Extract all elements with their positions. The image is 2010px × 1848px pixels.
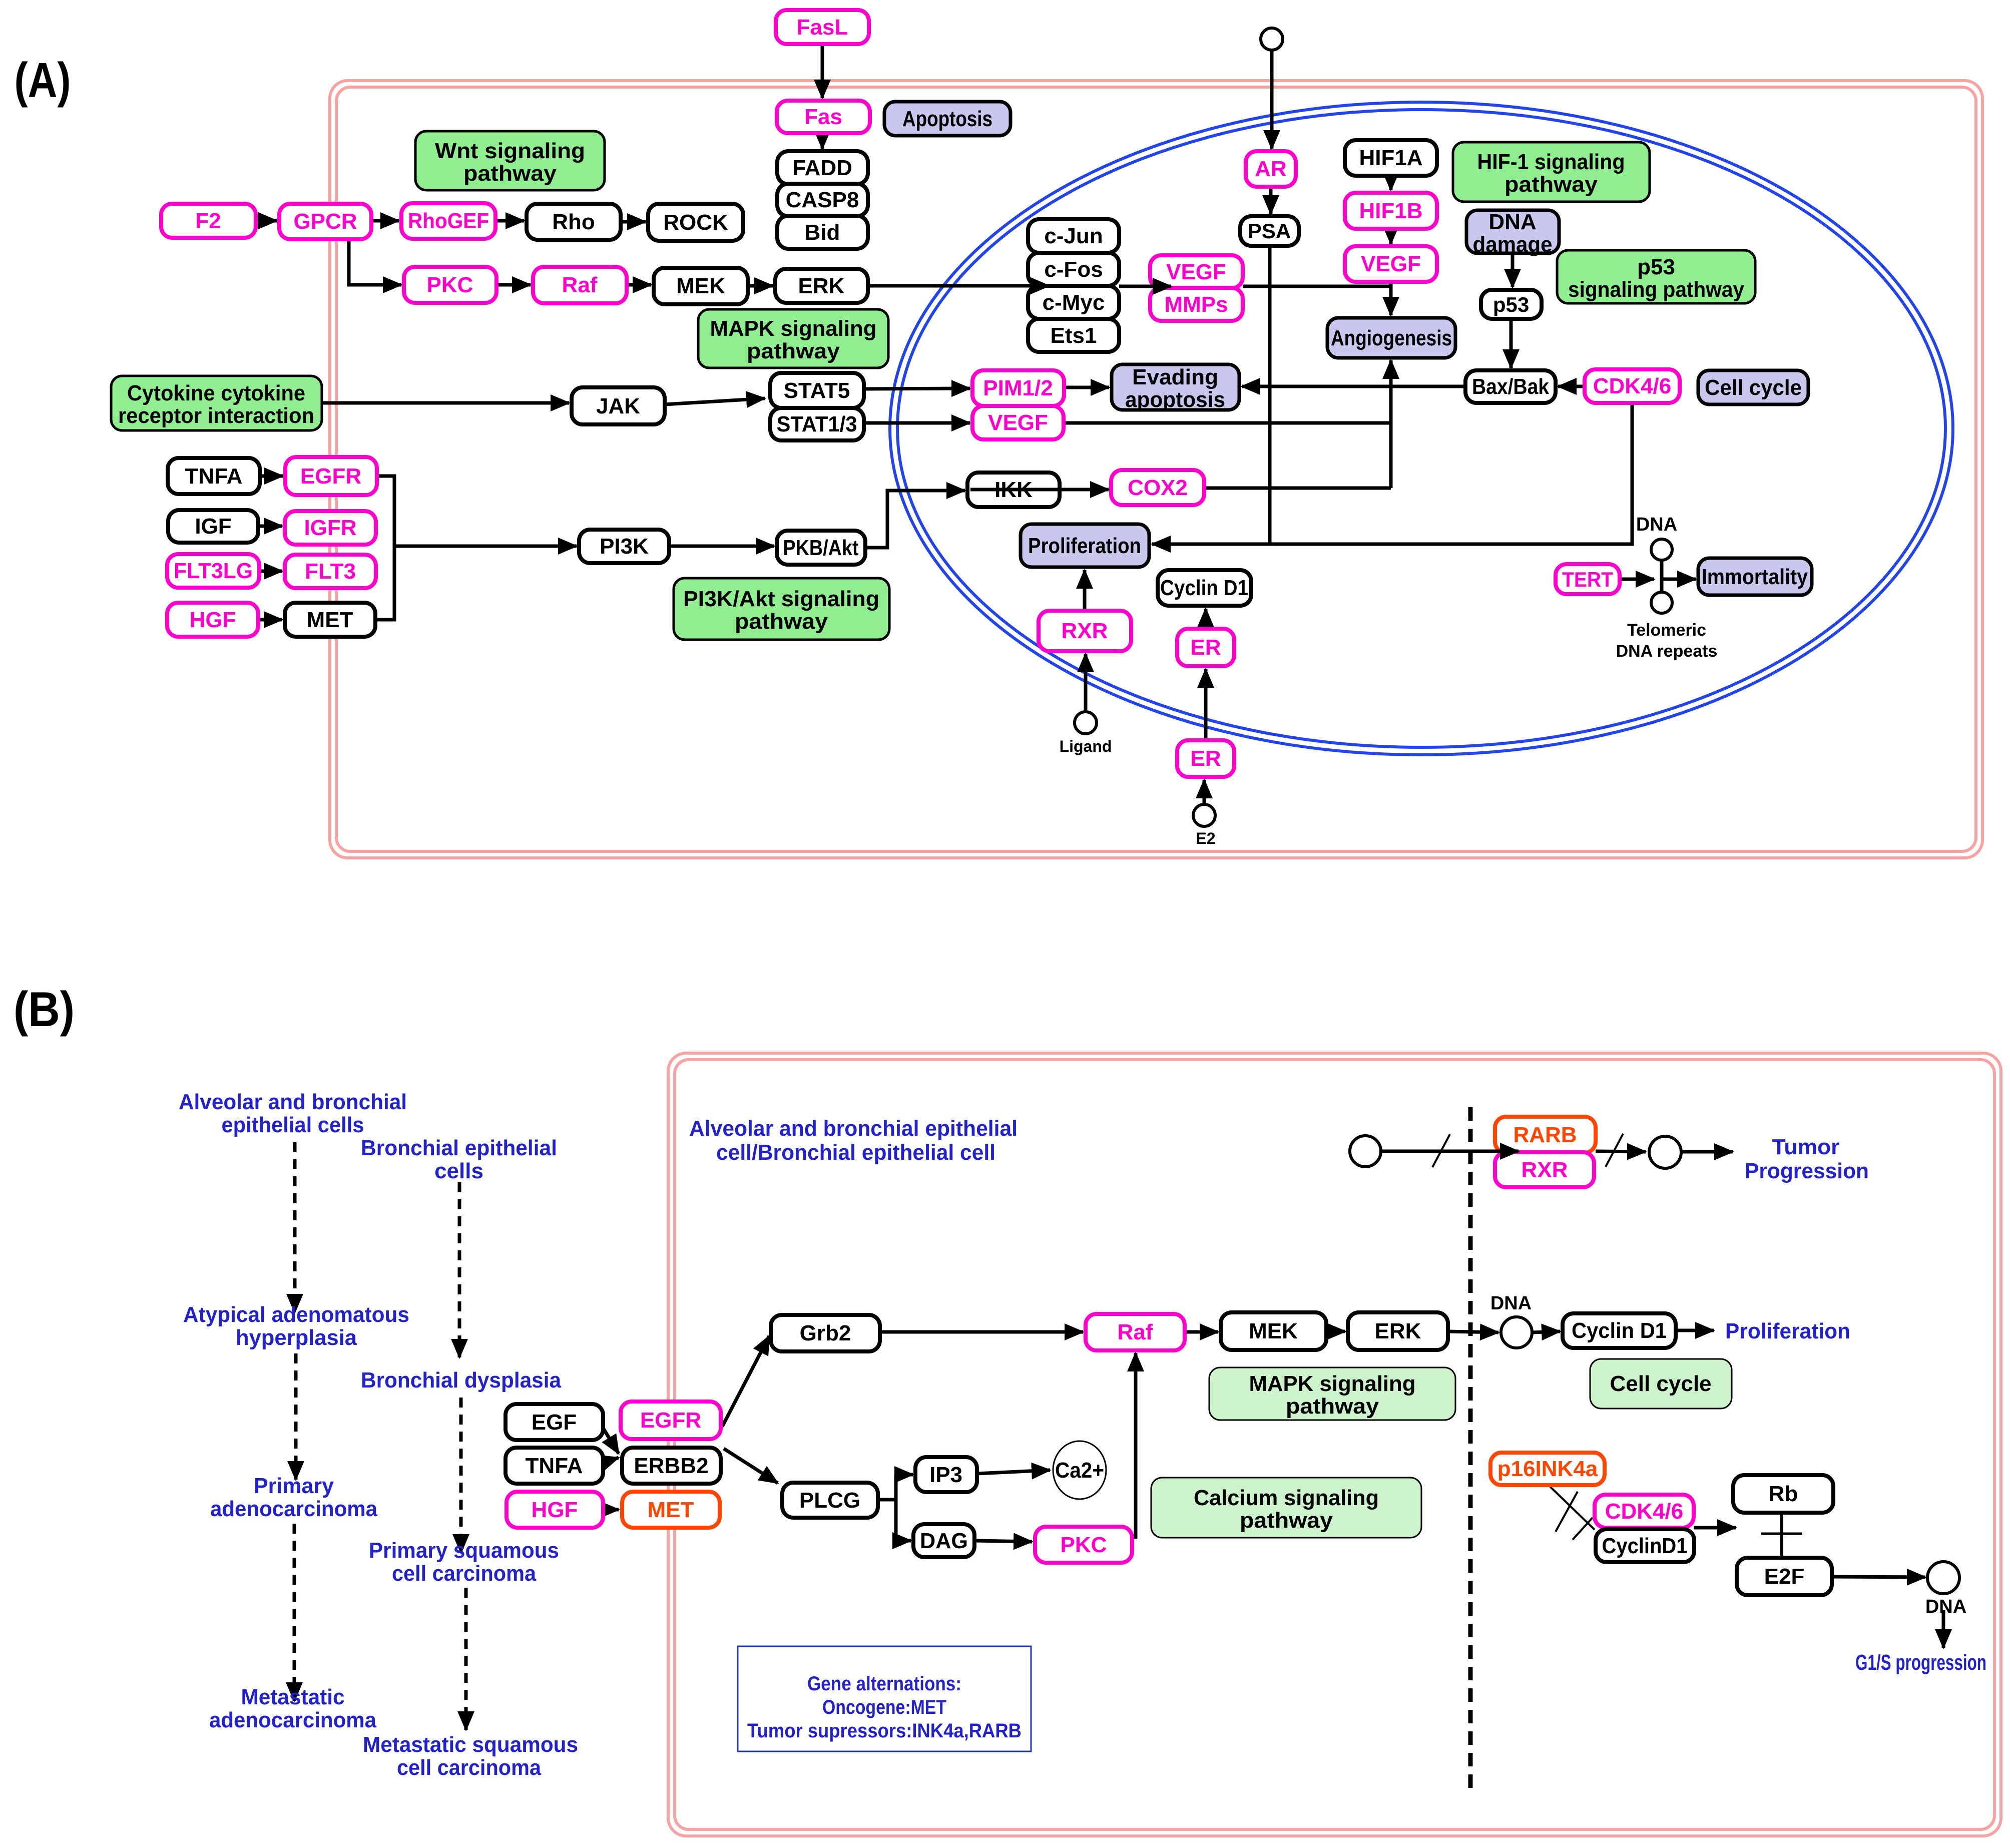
E2 circle: [1193, 804, 1215, 826]
arrow fork->DAG: [896, 1539, 911, 1543]
svg-text:Wnt signaling: Wnt signaling: [435, 139, 585, 163]
panel A membrane border (outer pink line): [330, 81, 1982, 858]
svg-text:COX2: COX2: [1128, 476, 1188, 500]
node IP3: [915, 1457, 977, 1492]
svg-text:PKC: PKC: [427, 273, 473, 297]
svg-text:hyperplasia: hyperplasia: [236, 1325, 357, 1350]
node PLCG: [782, 1483, 878, 1518]
panel B membrane border (outer pink line): [668, 1053, 2001, 1836]
wire receptor bracket: [375, 476, 394, 620]
svg-text:Bid: Bid: [805, 220, 840, 245]
arrow PKC->Raf: [496, 283, 531, 287]
svg-text:Rho: Rho: [552, 210, 595, 234]
svg-text:Fas: Fas: [804, 105, 842, 129]
node p53: [1481, 290, 1542, 319]
node COX2: [1111, 470, 1204, 505]
svg-text:DNA: DNA: [1490, 1293, 1532, 1314]
node MEK: [654, 268, 748, 304]
node HIF1B: [1345, 193, 1437, 229]
arrow ligand circle->AR: [1270, 50, 1274, 149]
node IKK: [967, 473, 1060, 507]
svg-text:ER: ER: [1190, 746, 1221, 771]
arrow HGF->MET (B): [603, 1508, 619, 1512]
svg-text:c-Myc: c-Myc: [1043, 290, 1105, 315]
svg-text:DNA: DNA: [1636, 514, 1677, 535]
node Angiogenesis: [1327, 318, 1455, 358]
svg-text:Bronchial epithelial: Bronchial epithelial: [361, 1136, 557, 1160]
nucleus envelope (inner blue ellipse): [897, 110, 1945, 747]
svg-text:Bax/Bak: Bax/Bak: [1472, 374, 1549, 399]
arrow E2->ER: [1203, 780, 1206, 804]
svg-text:ROCK: ROCK: [663, 210, 728, 235]
dashed arrow hyperplasia->primary adenocarcinoma: [294, 1353, 298, 1480]
dashed arrow alveolar cells->atypical hyperplasia: [293, 1142, 297, 1312]
node CDK4/6: [1585, 369, 1680, 403]
arrow MEK->ERK (B): [1326, 1330, 1345, 1333]
node Immortality: [1698, 558, 1812, 595]
node PIM1/2: [972, 370, 1064, 406]
arrow STAT1/3->VEGF: [864, 421, 970, 425]
svg-text:Ca2+: Ca2+: [1055, 1458, 1104, 1483]
svg-text:Oncogene:MET: Oncogene:MET: [822, 1696, 946, 1718]
node Cell cycle (A): [1698, 370, 1808, 404]
arrow MEK->ERK: [748, 284, 773, 288]
arrow PKB/Akt->IKK (elbow): [865, 491, 965, 548]
svg-text:HGF: HGF: [532, 1498, 578, 1522]
svg-text:Atypical adenomatous: Atypical adenomatous: [183, 1302, 409, 1327]
arrow ERBB2->PLCG: [724, 1449, 778, 1483]
arrow PIM1/2->Evading apoptosis: [1064, 386, 1109, 389]
svg-text:VEGF: VEGF: [1166, 260, 1226, 284]
node MET (B): [622, 1492, 720, 1528]
svg-text:Rb: Rb: [1769, 1482, 1798, 1506]
circle after RXR: [1649, 1136, 1681, 1168]
DNA circle (E2F): [1927, 1562, 1959, 1594]
node MMPs: [1150, 288, 1243, 321]
label Wnt signaling pathway: [415, 131, 605, 190]
svg-text:JAK: JAK: [596, 394, 640, 418]
node DAG: [913, 1524, 974, 1557]
nucleus envelope (outer blue ellipse): [890, 102, 1953, 755]
node c-Myc: [1028, 286, 1119, 319]
arrow fork->IP3: [896, 1473, 913, 1477]
svg-text:PKC: PKC: [1061, 1533, 1107, 1557]
node Apoptosis: [884, 102, 1011, 136]
svg-text:Tumor: Tumor: [1772, 1135, 1840, 1159]
arrow E2F->DNA circle (B): [1832, 1577, 1925, 1577]
node JAK: [572, 387, 665, 424]
svg-text:cell/Bronchial epithelial cell: cell/Bronchial epithelial cell: [716, 1140, 995, 1165]
svg-text:Cyclin D1: Cyclin D1: [1160, 576, 1248, 600]
svg-text:G1/S progression: G1/S progression: [1855, 1650, 1986, 1675]
svg-text:PSA: PSA: [1248, 219, 1291, 243]
svg-text:Tumor supressors:INK4a,RARB: Tumor supressors:INK4a,RARB: [747, 1720, 1022, 1742]
label Calcium signaling pathway: [1151, 1478, 1421, 1538]
node Raf (B): [1086, 1314, 1185, 1350]
node IGFR: [285, 511, 376, 545]
node MEK (B): [1221, 1312, 1326, 1350]
wire PLCG fork stem: [878, 1498, 896, 1502]
dashed nucleus boundary line (panel B): [1468, 1107, 1473, 1792]
node VEGF (ERK target): [1150, 255, 1243, 288]
svg-text:p53: p53: [1637, 255, 1675, 279]
svg-text:TNFA: TNFA: [526, 1454, 583, 1478]
arrow EGF->ERBB2: [603, 1428, 619, 1454]
node Cyclin D1 (B): [1563, 1313, 1676, 1348]
svg-text:epithelial cells: epithelial cells: [222, 1113, 364, 1137]
arrow CDK4/6-CyclinD1->Rb/E2F: [1694, 1526, 1736, 1530]
svg-text:F2: F2: [195, 209, 221, 233]
node TNFA: [168, 458, 260, 494]
dashed arrow squamous->metastatic squamous: [464, 1588, 468, 1730]
telomeric DNA circle (top): [1651, 539, 1672, 560]
svg-text:Ligand: Ligand: [1060, 737, 1112, 755]
arrow Raf->MEK: [627, 283, 651, 287]
arrow stack->VEGF/MMPs: [1119, 285, 1171, 288]
cross-out slash 2 (p16INK4a): [1573, 1518, 1593, 1540]
svg-text:CDK4/6: CDK4/6: [1593, 374, 1672, 398]
telomeric DNA circle (bottom): [1651, 592, 1672, 613]
svg-text:DAG: DAG: [920, 1529, 968, 1553]
svg-text:MEK: MEK: [1249, 1319, 1298, 1343]
svg-text:FADD: FADD: [792, 156, 852, 180]
svg-text:DNA: DNA: [1925, 1596, 1966, 1617]
panel B membrane border (inner pink line): [675, 1060, 1994, 1829]
label MAPK signaling pathway (B): [1209, 1367, 1455, 1420]
DNA circle (ERK->CyclinD1): [1501, 1317, 1532, 1348]
arrow Ligand->RXR: [1084, 654, 1088, 711]
gene alternations box: [738, 1646, 1031, 1751]
svg-text:Primary squamous: Primary squamous: [369, 1538, 559, 1563]
svg-text:adenocarcinoma: adenocarcinoma: [210, 1497, 377, 1521]
svg-text:(A): (A): [15, 53, 71, 108]
arrow IGF->IGFR: [258, 525, 282, 528]
svg-text:MMPs: MMPs: [1164, 292, 1228, 317]
node EGFR (B): [621, 1402, 721, 1439]
arrow AR->PSA: [1269, 187, 1273, 214]
node Cyclin D1 (A): [1158, 570, 1251, 606]
node RXR (A): [1039, 611, 1131, 651]
arrow CDK4/6->Proliferation (elbow): [1152, 403, 1632, 544]
wire COX2->column: [1204, 487, 1391, 490]
svg-text:PIM1/2: PIM1/2: [983, 376, 1053, 400]
svg-text:pathway: pathway: [463, 161, 557, 186]
svg-text:PLCG: PLCG: [799, 1488, 860, 1513]
node EGF: [506, 1404, 603, 1440]
node Bid: [777, 216, 868, 249]
dashed arrow bronchial cells->dysplasia: [458, 1182, 461, 1357]
arrow GPCR->RhoGEF: [371, 219, 399, 223]
arrow HGF->MET: [258, 618, 282, 622]
node RhoGEF: [401, 203, 495, 239]
node ER (upper): [1177, 629, 1234, 666]
node FasL: [776, 10, 869, 44]
svg-text:PI3K: PI3K: [600, 534, 649, 559]
svg-text:STAT5: STAT5: [784, 378, 850, 403]
wire MMPs->angiogenesis column: [1243, 285, 1391, 288]
inhibition bar Rb->E2F: [1780, 1513, 1783, 1558]
node CyclinD1 (B): [1596, 1529, 1694, 1562]
svg-text:DNA repeats: DNA repeats: [1616, 642, 1718, 661]
svg-text:apoptosis: apoptosis: [1125, 387, 1225, 412]
node VEGF (HIF target): [1345, 246, 1437, 282]
circle before RARB: [1350, 1136, 1381, 1167]
svg-text:MEK: MEK: [676, 274, 725, 298]
svg-text:p53: p53: [1493, 293, 1529, 316]
svg-text:EGFR: EGFR: [640, 1408, 701, 1433]
arrow PI3K->PKB/Akt: [669, 545, 774, 548]
node TERT: [1556, 564, 1620, 594]
node HIF1A: [1345, 140, 1437, 176]
svg-text:Proliferation: Proliferation: [1028, 534, 1141, 558]
svg-text:Telomeric: Telomeric: [1627, 621, 1706, 640]
node CASP8: [777, 184, 868, 216]
svg-text:cells: cells: [434, 1159, 483, 1183]
svg-text:Raf: Raf: [1118, 1320, 1153, 1344]
svg-text:pathway: pathway: [747, 339, 840, 363]
svg-text:VEGF: VEGF: [1361, 252, 1421, 276]
svg-text:Progression: Progression: [1745, 1159, 1869, 1183]
slash break 1 (RARB input): [1432, 1134, 1450, 1167]
svg-text:RXR: RXR: [1522, 1158, 1568, 1182]
arrow EGFR->Grb2: [722, 1336, 769, 1427]
arrow Cytokine->JAK: [322, 401, 569, 405]
node Grb2: [771, 1315, 880, 1351]
svg-text:Calcium signaling: Calcium signaling: [1194, 1486, 1379, 1510]
wire PSA down to proliferation line: [1268, 246, 1272, 544]
arrow ERK->DNA circle: [1448, 1331, 1498, 1332]
svg-text:MET: MET: [307, 608, 353, 632]
node ROCK: [648, 204, 743, 241]
node Ets1: [1028, 319, 1119, 352]
svg-text:RhoGEF: RhoGEF: [408, 209, 489, 233]
node Rho: [527, 204, 621, 240]
svg-text:Evading: Evading: [1132, 365, 1218, 389]
svg-text:E2F: E2F: [1764, 1564, 1805, 1589]
node PKC (B): [1035, 1527, 1132, 1563]
node VEGF (STAT target): [972, 406, 1064, 439]
node ERBB2: [622, 1448, 721, 1484]
svg-text:VEGF: VEGF: [988, 410, 1048, 435]
node Rb: [1733, 1475, 1833, 1513]
svg-text:Bronchial dysplasia: Bronchial dysplasia: [361, 1368, 562, 1393]
arrow ERK->transcription factor stack: [868, 284, 1049, 288]
node TNFA (B): [506, 1448, 603, 1484]
dashed arrow dysplasia->primary squamous: [459, 1398, 463, 1553]
panel A membrane border (inner pink line): [336, 87, 1976, 851]
arrow DNA circle->Cyclin D1: [1532, 1331, 1560, 1332]
arrow JAK->STATs: [665, 398, 765, 404]
arrow F2->GPCR: [256, 219, 277, 223]
label Cell cycle (B): [1590, 1359, 1732, 1409]
arrow ER->ER: [1204, 669, 1208, 740]
svg-text:adenocarcinoma: adenocarcinoma: [209, 1708, 376, 1732]
arrow STAT5->PIM1/2: [864, 388, 970, 389]
svg-text:pathway: pathway: [735, 609, 828, 634]
arrow Rho->ROCK: [621, 220, 646, 224]
svg-text:c-Fos: c-Fos: [1044, 257, 1103, 282]
arrow DAG->PKC (B): [974, 1541, 1032, 1542]
label PI3K/Akt signaling pathway: [674, 578, 889, 640]
node EGFR: [285, 457, 377, 495]
svg-text:cell carcinoma: cell carcinoma: [392, 1561, 536, 1586]
svg-text:Cell cycle: Cell cycle: [1705, 375, 1802, 400]
wire VEGF->angiogenesis column: [1064, 421, 1391, 425]
arrow FasL->Fas: [821, 44, 824, 98]
node Evading apoptosis: [1112, 364, 1239, 412]
arrow HIF1B->VEGF: [1389, 229, 1393, 244]
wire PLCG fork vertical: [894, 1475, 898, 1541]
node E2F: [1737, 1558, 1832, 1595]
arrow RARB/RXR->circle: [1596, 1151, 1646, 1152]
node IGF: [168, 510, 258, 543]
svg-text:cell carcinoma: cell carcinoma: [397, 1755, 541, 1780]
node ERK: [775, 269, 868, 303]
svg-text:RARB: RARB: [1513, 1123, 1577, 1147]
arrow IP3->Ca2+: [977, 1470, 1050, 1474]
node c-Jun: [1028, 219, 1119, 253]
arrow TERT->telomere: [1620, 578, 1654, 581]
node Ca2+: [1053, 1441, 1106, 1499]
svg-text:pathway: pathway: [1286, 1394, 1379, 1419]
svg-text:HIF1A: HIF1A: [1359, 146, 1422, 170]
svg-text:HIF1B: HIF1B: [1359, 199, 1422, 223]
svg-text:FLT3: FLT3: [305, 559, 356, 584]
arrow DNA->G1/S progression: [1942, 1610, 1945, 1648]
node DNA damage: [1466, 210, 1559, 257]
svg-text:c-Jun: c-Jun: [1044, 224, 1103, 248]
node RXR (B): [1495, 1152, 1594, 1187]
node Bax/Bak: [1465, 370, 1556, 403]
node HGF: [167, 603, 258, 637]
arrow RhoGEF->Rho: [495, 219, 524, 223]
node ERK (B): [1348, 1312, 1448, 1350]
svg-text:Metastatic: Metastatic: [241, 1685, 345, 1709]
inhibition link p16INK4a->CDK4/6: [1550, 1487, 1595, 1530]
svg-text:signaling pathway: signaling pathway: [1568, 277, 1744, 302]
svg-text:PKB/Akt: PKB/Akt: [783, 536, 859, 560]
svg-text:Cyclin D1: Cyclin D1: [1572, 1318, 1667, 1343]
dashed arrow adenocarcinoma->metastatic adenocarcinoma: [293, 1524, 296, 1701]
svg-text:(B): (B): [14, 982, 75, 1037]
svg-text:Raf: Raf: [562, 273, 598, 297]
svg-text:PI3K/Akt signaling: PI3K/Akt signaling: [683, 587, 879, 611]
node p16INK4a: [1490, 1453, 1605, 1485]
svg-text:Apoptosis: Apoptosis: [902, 107, 992, 131]
arrow ER->Cyclin D1: [1204, 609, 1208, 629]
arrow telomere->Immortality: [1662, 578, 1696, 581]
svg-text:MET: MET: [648, 1498, 694, 1522]
svg-text:IP3: IP3: [929, 1463, 962, 1487]
svg-text:CASP8: CASP8: [786, 188, 859, 212]
arrow receptors->PI3K: [394, 545, 577, 548]
svg-text:TNFA: TNFA: [185, 464, 243, 489]
node c-Fos: [1028, 253, 1119, 286]
label p53 signaling pathway: [1557, 250, 1755, 303]
arrow PKC->Raf vertical (B): [1134, 1353, 1138, 1539]
svg-text:Cell cycle: Cell cycle: [1610, 1371, 1711, 1396]
arrow TNFA->EGFR: [260, 475, 283, 478]
svg-text:MAPK signaling: MAPK signaling: [710, 316, 877, 341]
node ER (lower): [1177, 740, 1234, 777]
node AR: [1246, 151, 1296, 187]
arrow Fas->FADD: [821, 133, 824, 149]
svg-text:CDK4/6: CDK4/6: [1605, 1499, 1684, 1524]
arrow TNFA->ERBB2: [603, 1458, 619, 1463]
node Proliferation: [1021, 524, 1149, 567]
svg-text:STAT1/3: STAT1/3: [777, 412, 857, 436]
node FLT3: [285, 555, 376, 588]
svg-text:MAPK signaling: MAPK signaling: [1249, 1371, 1416, 1396]
label Cytokine cytokine receptor interaction: [111, 376, 322, 430]
arrow VEGF->Angiogenesis: [1389, 282, 1393, 315]
arrow CDK4/6->Bax/Bak: [1558, 385, 1585, 388]
svg-text:TERT: TERT: [1562, 568, 1613, 591]
arrow COX2 column->Angiogenesis bottom: [1389, 360, 1393, 488]
ligand circle (RXR): [1075, 712, 1097, 734]
arrow FLT3LG->FLT3: [259, 570, 282, 573]
svg-text:CyclinD1: CyclinD1: [1602, 1534, 1688, 1558]
svg-text:HIF-1 signaling: HIF-1 signaling: [1477, 150, 1625, 174]
svg-text:Angiogenesis: Angiogenesis: [1331, 326, 1452, 350]
node HGF (B): [507, 1492, 603, 1528]
svg-text:Primary: Primary: [254, 1474, 334, 1498]
svg-text:AR: AR: [1255, 157, 1287, 181]
label MAPK signaling pathway: [698, 309, 888, 368]
svg-text:HGF: HGF: [190, 608, 236, 632]
svg-text:pathway: pathway: [1240, 1508, 1333, 1533]
node F2: [161, 204, 256, 238]
arrow Bax/Bak->Evading apoptosis: [1242, 385, 1465, 388]
arrow circle->Tumor Progression: [1682, 1150, 1733, 1154]
svg-text:pathway: pathway: [1504, 172, 1598, 197]
node PKC: [404, 267, 496, 303]
svg-text:ERK: ERK: [1375, 1319, 1421, 1343]
svg-text:Proliferation: Proliferation: [1725, 1319, 1850, 1343]
arrow circle->RARB/RXR: [1381, 1150, 1519, 1153]
node GPCR: [279, 204, 371, 239]
svg-text:ERK: ERK: [798, 274, 845, 298]
svg-text:Ets1: Ets1: [1051, 323, 1097, 348]
node RARB: [1495, 1117, 1596, 1153]
node PKB/Akt: [777, 531, 865, 565]
svg-text:Gene alternations:: Gene alternations:: [807, 1673, 961, 1695]
node FADD: [777, 151, 868, 184]
svg-text:FasL: FasL: [797, 15, 848, 40]
node STAT5: [770, 373, 864, 408]
svg-text:ER: ER: [1190, 635, 1221, 660]
node PSA: [1240, 216, 1299, 246]
svg-text:ERBB2: ERBB2: [634, 1454, 708, 1478]
svg-text:Alveolar and bronchial epithel: Alveolar and bronchial epithelial: [689, 1116, 1018, 1141]
svg-text:IGF: IGF: [195, 514, 231, 539]
svg-text:receptor interaction: receptor interaction: [118, 403, 314, 428]
cross-out slash 1 (p16INK4a): [1556, 1492, 1578, 1532]
node Fas: [777, 101, 870, 133]
svg-text:Alveolar and bronchial: Alveolar and bronchial: [179, 1090, 407, 1114]
svg-text:FLT3LG: FLT3LG: [174, 559, 253, 583]
svg-text:p16INK4a: p16INK4a: [1497, 1457, 1598, 1481]
slash break 2 (RARB output): [1606, 1134, 1623, 1167]
arrow GPCR->PKC (elbow): [349, 239, 401, 285]
arrow RXR->Proliferation: [1083, 570, 1087, 611]
svg-text:Metastatic squamous: Metastatic squamous: [363, 1732, 578, 1757]
svg-text:E2: E2: [1196, 829, 1215, 847]
arrow p53->Bax/Bak: [1510, 319, 1513, 368]
svg-text:damage: damage: [1473, 232, 1553, 257]
arrow Raf->MEK (B): [1185, 1330, 1218, 1334]
label HIF-1 signaling pathway: [1453, 142, 1650, 202]
